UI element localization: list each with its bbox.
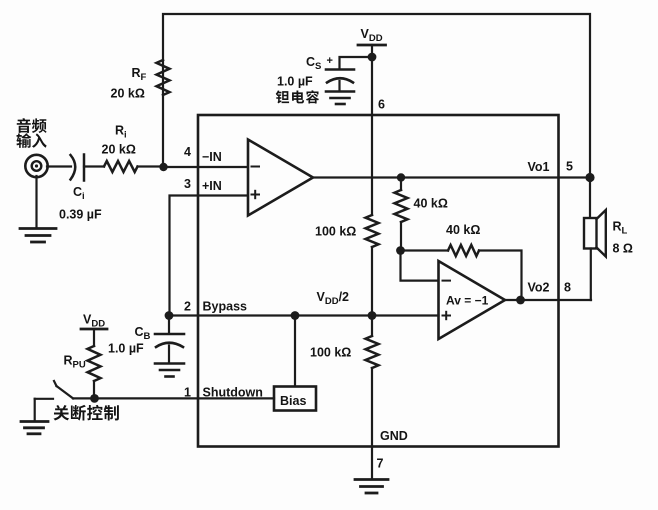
- svg-text:−IN: −IN: [202, 150, 222, 164]
- svg-text:40 kΩ: 40 kΩ: [414, 197, 448, 211]
- svg-text:RPU: RPU: [64, 354, 86, 371]
- wire bypass rail pin2: [170, 314, 439, 316]
- speaker RL: [584, 210, 606, 257]
- wire speaker bottom to Vo2: [590, 249, 592, 301]
- capacitor Ci: [71, 155, 85, 181]
- node bias tap: [291, 311, 300, 320]
- node bypass CB: [165, 311, 174, 320]
- capacitor CS: [326, 70, 354, 92]
- svg-text:Shutdown: Shutdown: [203, 386, 263, 400]
- svg-text:+: +: [327, 55, 333, 67]
- svg-text:GND: GND: [380, 429, 408, 443]
- switch SW1: [35, 381, 95, 399]
- svg-text:20 kΩ: 20 kΩ: [111, 87, 145, 101]
- block Bias: [274, 387, 316, 411]
- capacitor CB: [155, 316, 184, 364]
- resistor Ri: [104, 161, 138, 172]
- power VDD top: [358, 45, 386, 115]
- ground shutdown: [21, 399, 48, 434]
- wire 100k lower top/bottom: [371, 316, 373, 337]
- svg-text:1.0 µF: 1.0 µF: [277, 75, 313, 89]
- svg-text:Bypass: Bypass: [203, 300, 248, 314]
- svg-text:100 kΩ: 100 kΩ: [315, 225, 356, 239]
- svg-text:20 kΩ: 20 kΩ: [102, 143, 136, 157]
- resistor RPU: [88, 346, 101, 381]
- wire 40k feedback to Vo2: [479, 251, 522, 301]
- wire CS branch: [340, 57, 373, 69]
- ground GND pin7: [355, 447, 388, 494]
- ground CS: [326, 92, 354, 105]
- wire shutdown line to Bias: [95, 397, 275, 399]
- svg-text:Av = −1: Av = −1: [446, 294, 489, 308]
- op-amp U2: [439, 261, 506, 339]
- connector J1 audio input jack: [25, 155, 47, 177]
- svg-text:4: 4: [184, 145, 191, 159]
- svg-text:Ri: Ri: [115, 124, 127, 141]
- label shutdown control (Chinese): [53, 405, 118, 421]
- label audio input (Chinese): [16, 118, 46, 148]
- wire +IN run from bypass node up to op-amp U1 plus input: [170, 196, 248, 316]
- svg-text:CS: CS: [306, 55, 321, 72]
- node -IN junction: [159, 163, 167, 171]
- wire node to 40k feedback: [401, 249, 449, 251]
- node Vo1 at 40k tap: [397, 173, 405, 181]
- wire bias tap down: [294, 316, 296, 387]
- svg-text:1.0 µF: 1.0 µF: [108, 342, 144, 356]
- wire U2 minus input: [401, 251, 439, 281]
- node Vo1 at speaker rail: [585, 173, 594, 182]
- svg-text:2: 2: [184, 300, 191, 314]
- svg-text:8 Ω: 8 Ω: [613, 242, 633, 256]
- wire -IN node to op-amp U1 minus input: [163, 166, 248, 168]
- resistor 40k upper: [395, 190, 408, 222]
- svg-text:40 kΩ: 40 kΩ: [446, 223, 480, 237]
- wire 40k upper branch: [400, 178, 402, 191]
- node 40k junction: [396, 246, 405, 255]
- svg-text:1: 1: [184, 386, 191, 400]
- svg-text:VDD/2: VDD/2: [317, 290, 350, 307]
- svg-text:0.39 µF: 0.39 µF: [59, 208, 102, 222]
- wire 100k upper to VDD/2 node: [371, 247, 373, 316]
- node shutdown: [90, 394, 99, 403]
- svg-text:RF: RF: [132, 66, 147, 83]
- svg-text:+IN: +IN: [202, 179, 222, 193]
- resistor 100k lower: [366, 336, 379, 368]
- IC boundary box: [198, 115, 559, 447]
- wire jack to Ci: [47, 165, 71, 167]
- wire RF bottom to -IN node: [162, 95, 164, 167]
- svg-text:Ci: Ci: [73, 185, 85, 202]
- wire Vo2 rail: [505, 299, 591, 301]
- wire top feedback rail: [163, 14, 590, 178]
- ground jack: [20, 176, 56, 242]
- wire U1 output Vo1 rail: [313, 176, 590, 178]
- wire speaker top: [589, 178, 591, 219]
- svg-text:Bias: Bias: [280, 394, 306, 408]
- svg-text:3: 3: [184, 177, 191, 191]
- svg-text:VDD: VDD: [83, 313, 105, 330]
- svg-text:7: 7: [377, 457, 384, 471]
- resistor 100k upper: [366, 215, 379, 247]
- svg-text:5: 5: [566, 160, 573, 174]
- svg-text:8: 8: [564, 281, 571, 295]
- svg-text:Vo1: Vo1: [528, 160, 550, 174]
- node Vo2: [516, 296, 525, 305]
- node VDD/2: [368, 311, 377, 320]
- node VDD / CS tap: [368, 53, 377, 62]
- svg-text:100 kΩ: 100 kΩ: [310, 346, 351, 360]
- wire VDD rail pin6 down through IC: [371, 115, 373, 215]
- resistor RF: [157, 60, 170, 95]
- svg-text:RL: RL: [613, 220, 628, 237]
- ground CB: [155, 364, 184, 377]
- wire Ri to -IN node: [138, 165, 164, 167]
- svg-text:CB: CB: [135, 325, 151, 342]
- resistor 40k feedback: [448, 245, 479, 256]
- svg-text:VDD: VDD: [361, 27, 383, 44]
- wire RPU to shutdown node: [93, 381, 95, 398]
- wire 40k upper to node: [400, 222, 402, 251]
- wire Ci to Ri: [84, 165, 104, 167]
- op-amp U1: [248, 140, 313, 216]
- power VDD shutdown pull-up: [81, 329, 107, 346]
- svg-text:6: 6: [378, 98, 385, 112]
- svg-text:Vo2: Vo2: [528, 281, 550, 295]
